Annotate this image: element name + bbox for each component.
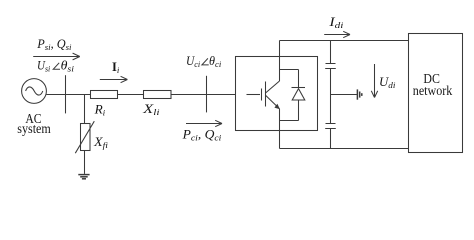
wire DC link top rail: [280, 40, 409, 42]
svg-text:Ii: Ii: [112, 60, 120, 75]
svg-text:θsi: θsi: [61, 59, 75, 74]
wire C1 to C2: [330, 69, 332, 124]
wire C2 to bottom rail: [330, 129, 332, 149]
arrow P_si Q_si flow: [33, 53, 80, 60]
IGBT main bar: [265, 82, 267, 107]
converter loop right branch bottom: [298, 100, 300, 121]
arrow U_di voltage: [371, 64, 377, 98]
converter loop left branch bottom: [279, 109, 281, 121]
svg-text:Udi: Udi: [379, 75, 396, 90]
wire R_i to X_li: [118, 94, 144, 96]
diode D1 cathode bar: [292, 87, 306, 89]
wire capacitor midpoint to ground: [331, 94, 357, 96]
arrow I_di flow: [324, 31, 350, 37]
IGBT emitter arrowhead: [274, 104, 280, 110]
capacitor C2: [325, 124, 336, 129]
diode D1 triangle: [292, 89, 305, 100]
IGBT gate bar: [261, 89, 263, 101]
converter loop right branch top: [298, 70, 300, 88]
svg-text:Xfi: Xfi: [93, 135, 109, 150]
ground (AC filter): [78, 175, 89, 179]
svg-text:Xli: Xli: [142, 102, 160, 117]
converter loop top rail: [280, 69, 299, 71]
svg-text:Uci: Uci: [186, 54, 201, 69]
wire DC link top to C1: [330, 41, 332, 64]
arrow P_ci Q_ci flow: [186, 120, 222, 126]
converter loop left branch top: [279, 70, 281, 82]
wire AC source to R_i: [46, 94, 90, 96]
capacitor C1: [325, 64, 336, 69]
AC source sine wave: [26, 87, 43, 95]
bus bar B2: [206, 76, 208, 113]
angle symbol in U_ci label: [202, 58, 209, 65]
IGBT collector diagonal: [266, 81, 280, 93]
X_fi diagonal stroke: [75, 121, 94, 153]
wire converter DC positive riser: [279, 41, 281, 70]
IGBT emitter diagonal: [266, 95, 280, 109]
wire DC link bottom rail: [280, 148, 409, 150]
svg-text:Idi: Idi: [328, 15, 344, 30]
svg-text:network: network: [413, 83, 453, 98]
svg-text:Usi: Usi: [37, 59, 51, 74]
IGBT gate stub: [247, 94, 261, 96]
svg-text:Psi, Qsi: Psi, Qsi: [36, 37, 72, 52]
svg-text:system: system: [17, 121, 51, 136]
svg-text:Ri: Ri: [94, 103, 106, 118]
bus bar B1: [65, 75, 67, 113]
ground (DC midpoint): [357, 89, 361, 99]
arrow I_i flow: [100, 76, 128, 82]
angle symbol in U_si label: [53, 63, 60, 70]
converter loop bottom rail: [280, 120, 299, 122]
AC source G1: [22, 79, 47, 104]
reactor X_li: [144, 91, 172, 99]
wire X_fi to ground: [84, 151, 86, 174]
svg-text:Pci, Qci: Pci, Qci: [181, 128, 221, 143]
filter reactor X_fi: [81, 124, 91, 151]
resistor R_i: [91, 91, 118, 99]
DC network box: [409, 34, 463, 153]
wire X_fi branch: [84, 95, 86, 124]
converter box U1: [236, 57, 318, 131]
wire X_li to converter: [171, 94, 236, 96]
svg-text:θci: θci: [209, 54, 222, 69]
wire converter DC negative drop: [279, 121, 281, 149]
